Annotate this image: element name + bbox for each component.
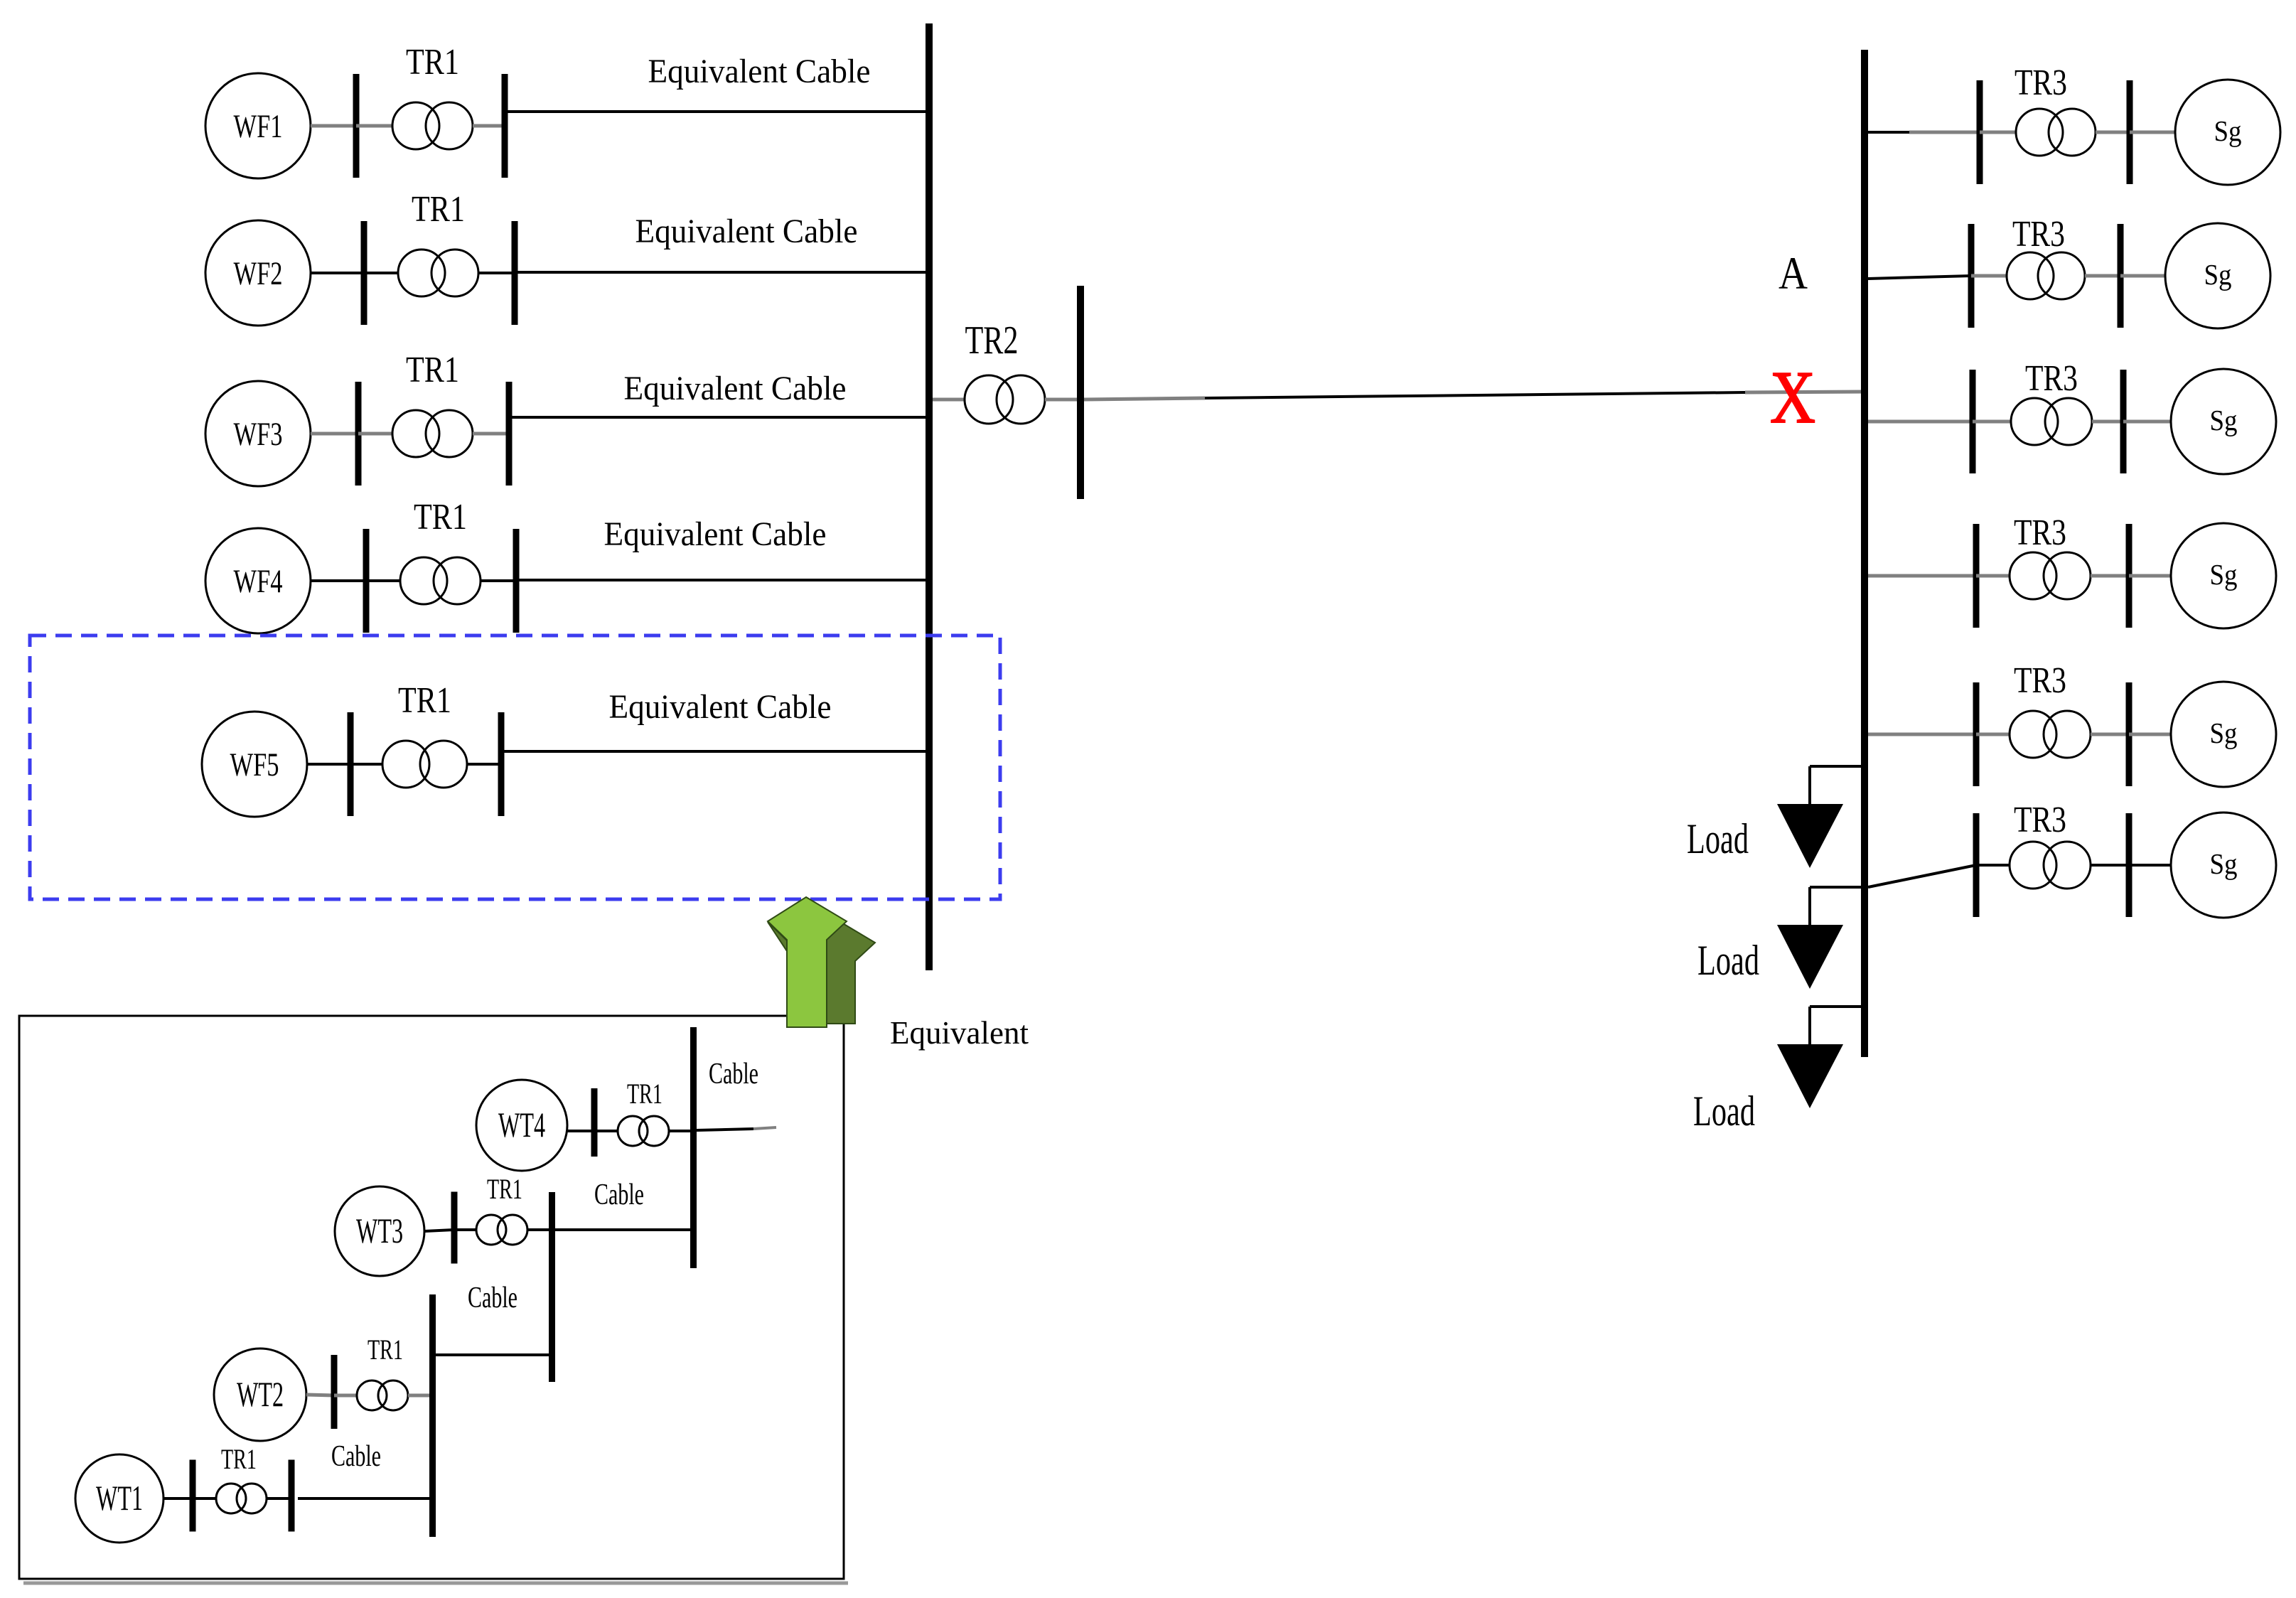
svg-text:A: A [1779,248,1808,299]
svg-text:Cable: Cable [594,1179,644,1211]
svg-text:Cable: Cable [709,1058,758,1090]
svg-text:WF4: WF4 [234,563,283,600]
svg-text:Load: Load [1687,815,1749,862]
svg-text:WF5: WF5 [230,746,279,783]
svg-text:WF1: WF1 [234,108,283,145]
svg-text:Cable: Cable [331,1440,381,1473]
svg-text:TR1: TR1 [627,1078,662,1110]
svg-text:TR1: TR1 [368,1334,403,1366]
svg-text:TR1: TR1 [412,189,465,230]
svg-text:Sg: Sg [2210,717,2238,749]
svg-text:Equivalent Cable: Equivalent Cable [604,515,827,553]
svg-text:TR1: TR1 [406,42,459,82]
svg-text:TR3: TR3 [2012,214,2065,254]
svg-text:Sg: Sg [2214,114,2242,147]
svg-text:TR3: TR3 [2014,513,2066,553]
svg-text:WT4: WT4 [498,1105,545,1144]
svg-text:TR3: TR3 [2015,63,2067,103]
svg-text:Equivalent: Equivalent [890,1015,1029,1051]
svg-text:Cable: Cable [468,1282,517,1314]
svg-text:WF2: WF2 [234,255,283,292]
svg-text:TR3: TR3 [2025,358,2078,399]
svg-text:Load: Load [1697,937,1759,984]
svg-text:Sg: Sg [2210,558,2238,591]
svg-text:WT3: WT3 [356,1211,403,1250]
svg-text:Sg: Sg [2210,847,2238,880]
svg-text:Equivalent Cable: Equivalent Cable [624,370,847,407]
svg-text:Equivalent Cable: Equivalent Cable [635,213,858,250]
svg-text:TR1: TR1 [414,497,467,537]
svg-text:TR1: TR1 [221,1443,257,1475]
svg-text:WT1: WT1 [96,1478,143,1518]
svg-text:WF3: WF3 [234,416,283,453]
svg-text:Sg: Sg [2210,404,2238,436]
svg-text:TR3: TR3 [2014,660,2066,701]
svg-text:TR3: TR3 [2014,800,2066,840]
svg-text:TR2: TR2 [965,318,1019,363]
svg-text:X: X [1770,355,1815,439]
svg-text:Sg: Sg [2204,258,2232,291]
svg-text:TR1: TR1 [487,1173,522,1205]
svg-text:TR1: TR1 [406,350,459,390]
svg-text:Equivalent Cable: Equivalent Cable [648,53,871,90]
svg-text:Load: Load [1693,1088,1755,1135]
svg-text:WT2: WT2 [237,1374,284,1414]
svg-text:Equivalent Cable: Equivalent Cable [609,688,832,726]
svg-text:TR1: TR1 [398,680,451,721]
